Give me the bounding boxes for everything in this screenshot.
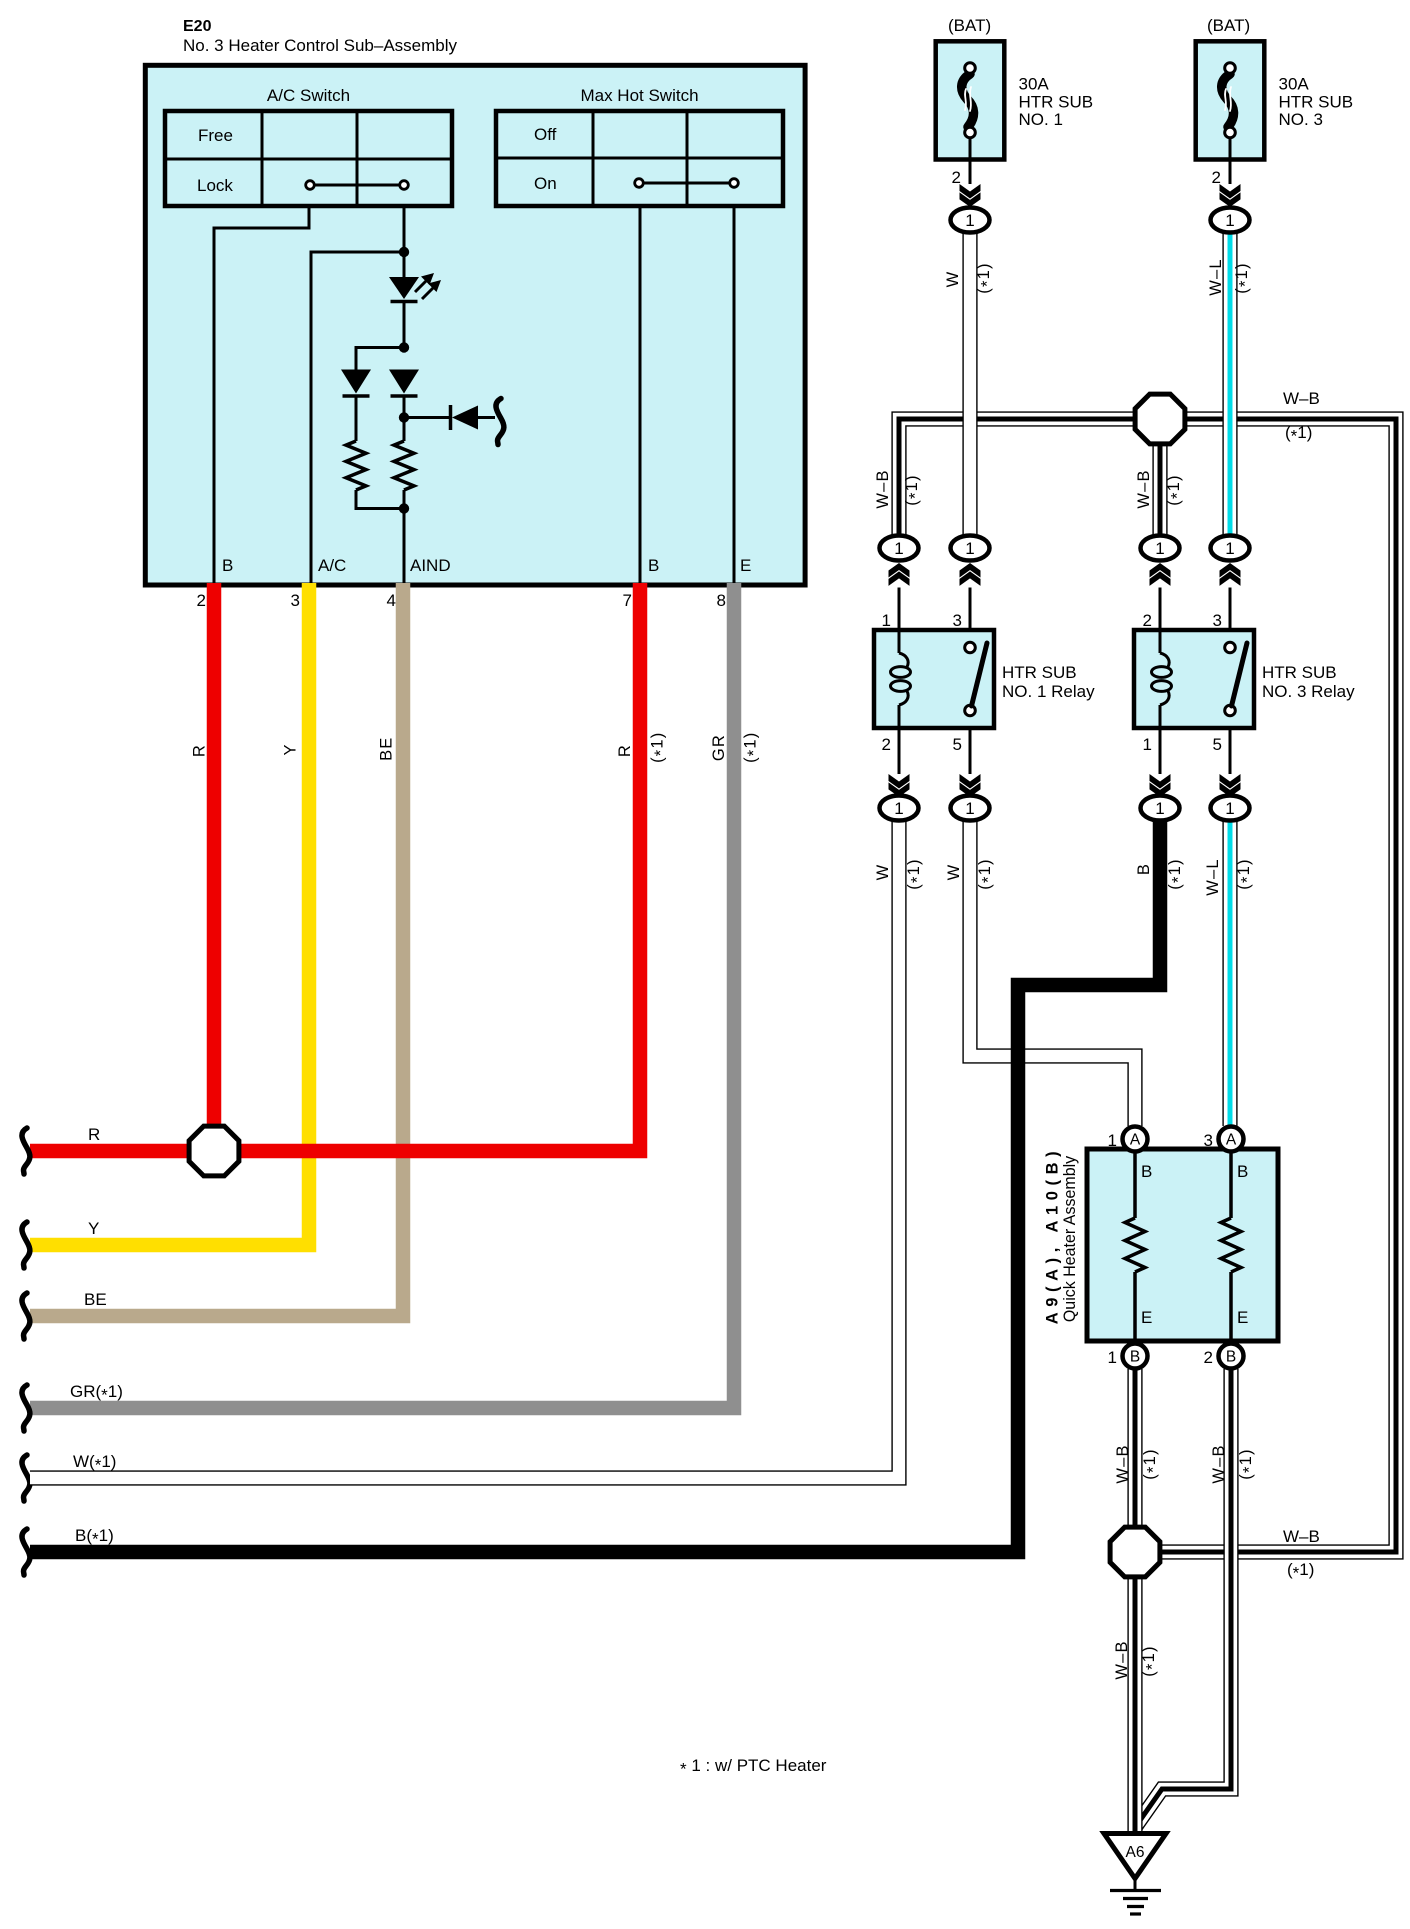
svg-text:2: 2 xyxy=(1204,1348,1213,1367)
off-page squiggle GR xyxy=(22,1385,30,1431)
label W (*1) fuse1 wire xyxy=(944,262,997,293)
wire A/C switch to LED chain xyxy=(403,206,406,252)
wire fuse2 pin 2 link xyxy=(1229,138,1232,184)
svg-text:(*1): (*1) xyxy=(1237,1448,1259,1479)
svg-text:W–B: W–B xyxy=(1210,1444,1228,1483)
svg-text:Lock: Lock xyxy=(197,176,233,195)
svg-text:7: 7 xyxy=(623,591,632,610)
wire relay1 pin1 link xyxy=(898,588,901,631)
label W (*1) relay1 coil wire xyxy=(874,858,927,889)
label E20 / No. 3 Heater Control Sub-Assembly xyxy=(183,18,458,55)
svg-text:A/C: A/C xyxy=(318,556,346,575)
relay HTR SUB NO.3 box xyxy=(1134,630,1254,728)
fuse element NO.3 xyxy=(1222,74,1234,127)
svg-text:2: 2 xyxy=(882,735,891,754)
wire fuse1 pin 2 link xyxy=(969,138,972,184)
Max Hot Switch table xyxy=(496,86,783,206)
wire R (red) off-page to pin 7 xyxy=(30,583,640,1151)
wire W relay1 coil to off-page xyxy=(30,821,899,1478)
heater pin numbers xyxy=(1108,1131,1213,1367)
svg-text:On: On xyxy=(534,174,557,193)
arrow up relay3 pin2 xyxy=(1150,563,1171,578)
diode middle branch xyxy=(389,370,419,394)
svg-text:B: B xyxy=(1237,1162,1248,1181)
svg-text:HTR SUB: HTR SUB xyxy=(1019,93,1094,112)
relay1 switch xyxy=(965,642,976,653)
connector 1 below relay3 coil xyxy=(1141,796,1180,821)
fuse HTR SUB NO.1 box xyxy=(936,41,1005,159)
svg-text:3: 3 xyxy=(953,611,962,630)
wire junction to pin 3 (A/C) xyxy=(311,252,404,585)
wire LED to junction xyxy=(403,301,406,348)
connector 1 above relay3 coil xyxy=(1141,536,1180,561)
arrow down relay1 pin5 xyxy=(960,774,981,789)
svg-text:3: 3 xyxy=(1213,611,1222,630)
svg-text:1: 1 xyxy=(1225,211,1234,230)
A/C Switch table xyxy=(165,86,452,206)
label W (*1) relay1 switch wire xyxy=(945,858,998,889)
relay3 switch xyxy=(1225,642,1236,653)
svg-text:1: 1 xyxy=(1225,539,1234,558)
label HTR SUB NO. 1 Relay xyxy=(1002,663,1095,701)
svg-text:R: R xyxy=(616,744,634,757)
svg-text:A6: A6 xyxy=(1126,1844,1145,1861)
arrow down fuse1 xyxy=(960,184,981,199)
node octagon junction R xyxy=(189,1126,239,1176)
svg-text:(*1): (*1) xyxy=(975,262,997,293)
pin numbers relay1 top xyxy=(882,611,962,630)
svg-text:8: 8 xyxy=(717,591,726,610)
pin numbers relay1 bottom xyxy=(882,735,962,754)
E20 No.3 Heater Control Sub-Assembly box xyxy=(145,65,805,585)
svg-text:Quick Heater Assembly: Quick Heater Assembly xyxy=(1061,1155,1079,1322)
svg-text:1: 1 xyxy=(1225,799,1234,818)
quick heater assembly box xyxy=(1087,1149,1278,1341)
arrow up relay3 pin3 xyxy=(1220,563,1241,578)
wire Max Hot switch to pin 7 (B) xyxy=(639,206,642,585)
ground symbol xyxy=(1110,1878,1161,1914)
svg-text:Max Hot Switch: Max Hot Switch xyxy=(580,86,698,105)
svg-text:1: 1 xyxy=(894,539,903,558)
arrow down relay3 pin1 xyxy=(1150,774,1171,789)
terminal A heater pin1 xyxy=(1123,1127,1148,1152)
svg-text:(*1): (*1) xyxy=(1233,262,1255,293)
svg-text:HTR SUB: HTR SUB xyxy=(1002,663,1077,682)
svg-text:(*1): (*1) xyxy=(1287,1560,1314,1583)
wire W-L fuse2 to relay3 switch xyxy=(1222,233,1237,536)
wire W relay1 switch to heater 1A xyxy=(970,821,1135,1126)
wire left diode to resistor xyxy=(355,396,358,441)
resistor left branch xyxy=(346,441,366,490)
svg-text:(*1): (*1) xyxy=(1166,858,1188,889)
connector 1 below relay1 coil xyxy=(880,796,919,821)
heater element left wire xyxy=(1133,1152,1137,1218)
svg-text:W–L: W–L xyxy=(1207,258,1225,296)
heater element right wire xyxy=(1229,1152,1233,1218)
svg-text:1: 1 xyxy=(1155,799,1164,818)
node octagon junction W-B bottom xyxy=(1110,1527,1160,1577)
svg-text:B: B xyxy=(1141,1162,1152,1181)
wire GR (gray) pin 8 to off-page xyxy=(30,583,734,1408)
svg-text:Y: Y xyxy=(281,743,299,755)
svg-text:1: 1 xyxy=(965,539,974,558)
svg-text:W–B: W–B xyxy=(1135,469,1153,508)
svg-text:W–B: W–B xyxy=(874,469,892,508)
svg-text:NO. 3 Relay: NO. 3 Relay xyxy=(1262,682,1355,701)
svg-text:4: 4 xyxy=(387,591,396,610)
svg-text:1: 1 xyxy=(1155,539,1164,558)
arrow down relay1 pin2 xyxy=(889,774,910,789)
svg-text:1: 1 xyxy=(965,211,974,230)
resistor middle branch xyxy=(394,441,414,490)
arrow up relay1 pin1 xyxy=(889,563,910,578)
svg-text:W–L: W–L xyxy=(1204,858,1222,896)
svg-text:NO. 1 Relay: NO. 1 Relay xyxy=(1002,682,1095,701)
off-page squiggle B xyxy=(22,1529,30,1575)
connector 1 above relay1 coil xyxy=(880,536,919,561)
wire W-B octagon to relay3 coil connector xyxy=(1152,442,1167,536)
off-page squiggle Y xyxy=(22,1222,30,1268)
svg-text:(*1): (*1) xyxy=(649,731,671,762)
svg-text:R: R xyxy=(191,744,209,757)
node junction above LED xyxy=(399,247,409,257)
wire W-B loop (fuse side ground net) xyxy=(899,419,1396,1552)
terminal A heater pin3 xyxy=(1219,1127,1244,1152)
node octagon junction W-B top xyxy=(1135,394,1185,444)
label W-B (*1) bottom horizontal xyxy=(1283,1527,1320,1583)
svg-text:Y: Y xyxy=(88,1219,99,1238)
wire heater left to E xyxy=(1133,1272,1137,1343)
svg-text:A/C Switch: A/C Switch xyxy=(267,86,350,105)
svg-text:NO. 3: NO. 3 xyxy=(1279,110,1323,129)
wire W-B heater 1B to octagon2 xyxy=(1127,1369,1142,1527)
label 30A HTR SUB NO. 1 xyxy=(1019,75,1094,130)
svg-text:E20: E20 xyxy=(183,18,212,35)
relay1 coil xyxy=(898,630,901,653)
ground connector A6 triangle xyxy=(1104,1834,1166,1879)
svg-text:(*1): (*1) xyxy=(742,731,764,762)
svg-text:2: 2 xyxy=(1143,611,1152,630)
relay HTR SUB NO.1 box xyxy=(874,630,994,728)
terminal B heater pin1 bottom xyxy=(1123,1344,1148,1369)
svg-text:5: 5 xyxy=(1213,735,1222,754)
connector 1 below fuse1 xyxy=(951,208,990,233)
LED indicator (AIND) xyxy=(389,252,441,302)
label A9(A) A10(B) Quick Heater Assembly xyxy=(1044,1146,1080,1325)
svg-text:AIND: AIND xyxy=(410,556,451,575)
node junction below LED xyxy=(399,342,409,352)
off-page squiggle W xyxy=(22,1455,30,1501)
wire W-B octagon2 to ground xyxy=(1127,1577,1142,1833)
svg-text:A: A xyxy=(1130,1132,1141,1149)
arrow down relay3 pin5 xyxy=(1220,774,1241,789)
wire middle diode to junction xyxy=(403,396,406,418)
heater internal terminal letters xyxy=(1141,1162,1248,1327)
wire B relay3 coil to off-page xyxy=(30,821,1160,1552)
wire W fuse1 to relay1 switch xyxy=(962,233,977,536)
svg-text:W–B: W–B xyxy=(1113,1640,1131,1679)
svg-text:W: W xyxy=(874,864,892,881)
wire relay3 pin2 link xyxy=(1159,588,1162,631)
relay3 coil xyxy=(1159,630,1162,653)
wire heater right to E xyxy=(1229,1272,1233,1343)
arrow up relay1 pin3 xyxy=(960,563,981,578)
label B (*1) wire xyxy=(1135,858,1188,889)
svg-text:HTR SUB: HTR SUB xyxy=(1262,663,1337,682)
arrow down fuse2 xyxy=(1220,184,1241,199)
svg-text:1: 1 xyxy=(1108,1348,1117,1367)
svg-text:GR: GR xyxy=(710,734,728,761)
svg-text:No. 3 Heater Control Sub–Assem: No. 3 Heater Control Sub–Assembly xyxy=(183,36,458,55)
svg-text:(*1): (*1) xyxy=(1285,423,1312,446)
svg-text:A9(A), A10(B): A9(A), A10(B) xyxy=(1044,1146,1062,1325)
connector 1 below relay3 switch xyxy=(1211,796,1250,821)
svg-text:(*1): (*1) xyxy=(1141,1448,1163,1479)
label W-B (*1) top horizontal xyxy=(1283,389,1320,446)
svg-text:W: W xyxy=(945,864,963,881)
svg-text:W–B: W–B xyxy=(1114,1444,1132,1483)
svg-text:Off: Off xyxy=(534,125,557,144)
wire resistor to bottom junction xyxy=(403,490,406,585)
node bottom junction xyxy=(399,503,409,513)
wire junction to right diode xyxy=(404,416,450,419)
svg-text:HTR SUB: HTR SUB xyxy=(1279,93,1354,112)
connector 1 below fuse2 xyxy=(1211,208,1250,233)
fuse HTR SUB NO.3 box xyxy=(1196,41,1265,159)
wire relay1 pin2 link xyxy=(898,728,901,774)
svg-text:B: B xyxy=(1226,1349,1236,1366)
label W-B (*1) heater 2B wire xyxy=(1210,1444,1259,1483)
svg-text:(*1): (*1) xyxy=(976,858,998,889)
svg-text:(BAT): (BAT) xyxy=(948,16,991,35)
connector 1 above relay1 switch xyxy=(951,536,990,561)
svg-text:BE: BE xyxy=(84,1290,107,1309)
label W-B (*1) middle vertical xyxy=(1135,469,1187,508)
svg-text:2: 2 xyxy=(197,591,206,610)
svg-text:30A: 30A xyxy=(1019,75,1050,94)
svg-text:1: 1 xyxy=(882,611,891,630)
svg-text:BE: BE xyxy=(377,736,395,760)
wire relay1 pin5 link xyxy=(969,728,972,774)
wire middle to resistor xyxy=(403,418,406,442)
connector 1 above relay3 switch xyxy=(1211,536,1250,561)
label W-B (*1) heater 1B wire xyxy=(1114,1444,1163,1483)
svg-text:(*1): (*1) xyxy=(905,858,927,889)
off-page squiggle R xyxy=(22,1128,30,1174)
svg-text:1: 1 xyxy=(1143,735,1152,754)
wire A/C switch to pin 2 (B) xyxy=(214,206,309,585)
A/C switch contact (Lock row) xyxy=(306,181,409,190)
wire BE (beige) pin 4 to off-page xyxy=(30,583,403,1316)
resistor heater element left xyxy=(1125,1218,1145,1272)
pin numbers relay3 bottom xyxy=(1143,735,1222,754)
svg-text:(*1): (*1) xyxy=(1165,474,1187,505)
terminal B heater pin2 bottom xyxy=(1219,1344,1244,1369)
svg-text:B: B xyxy=(222,556,233,575)
stub labels xyxy=(70,1125,123,1549)
fuse element NO.1 xyxy=(962,74,974,127)
svg-text:1: 1 xyxy=(894,799,903,818)
off-page squiggle BE xyxy=(22,1293,30,1339)
wire R (red) pin 2 down xyxy=(207,583,222,1151)
label W-L (*1) relay3 switch wire xyxy=(1204,858,1257,896)
node junction at right-diode tap xyxy=(399,412,409,422)
svg-text:5: 5 xyxy=(953,735,962,754)
resistor heater element right xyxy=(1221,1218,1241,1272)
E20 terminal letters xyxy=(222,556,751,575)
wire W-L relay3 switch to heater 3A xyxy=(1222,821,1237,1126)
svg-text:B: B xyxy=(648,556,659,575)
svg-text:R: R xyxy=(88,1125,100,1144)
wire left resistor to bottom junction xyxy=(356,490,404,509)
svg-text:B: B xyxy=(1130,1349,1140,1366)
label W-B (*1) left vertical xyxy=(874,469,925,508)
wire relay1 pin3 link xyxy=(969,588,972,631)
off-page squiggle at right diode xyxy=(496,399,504,445)
diode left branch xyxy=(341,370,371,394)
Max Hot switch contact (On row) xyxy=(635,179,739,188)
label W-B (*1) below octagon2 xyxy=(1113,1640,1162,1679)
svg-text:A: A xyxy=(1226,1132,1237,1149)
svg-text:(*1): (*1) xyxy=(1235,858,1257,889)
svg-text:E: E xyxy=(740,556,751,575)
label W-L (*1) fuse2 wire xyxy=(1207,258,1255,296)
svg-text:* 1 : w/ PTC Heater: * 1 : w/ PTC Heater xyxy=(680,1756,827,1779)
wire relay3 pin1 link xyxy=(1159,728,1162,774)
svg-text:(BAT): (BAT) xyxy=(1207,16,1250,35)
E20 pin numbers 2 3 4 7 8 xyxy=(197,591,726,610)
svg-text:1: 1 xyxy=(1108,1131,1117,1150)
svg-text:E: E xyxy=(1237,1308,1248,1327)
svg-text:(*1): (*1) xyxy=(1140,1645,1162,1676)
svg-text:B: B xyxy=(1135,863,1153,875)
wire junction to left diode branch xyxy=(356,348,404,370)
connector 1 below relay1 switch xyxy=(951,796,990,821)
svg-text:NO. 1: NO. 1 xyxy=(1019,110,1063,129)
label 30A HTR SUB NO. 3 xyxy=(1279,75,1354,130)
wire Y (yellow) pin 3 to off-page xyxy=(30,583,309,1245)
svg-text:W: W xyxy=(944,271,962,288)
svg-text:3: 3 xyxy=(291,591,300,610)
wire color labels rotated xyxy=(191,731,764,762)
svg-text:3: 3 xyxy=(1204,1131,1213,1150)
svg-text:W–B: W–B xyxy=(1283,389,1320,408)
wire relay3 pin3 link xyxy=(1229,588,1232,631)
wire W-B heater 2B to ground xyxy=(1136,1369,1231,1826)
svg-text:1: 1 xyxy=(965,799,974,818)
wire relay3 pin5 link xyxy=(1229,728,1232,774)
pin numbers relay3 top xyxy=(1143,611,1222,630)
svg-text:30A: 30A xyxy=(1279,75,1310,94)
svg-text:Free: Free xyxy=(198,126,233,145)
svg-text:E: E xyxy=(1141,1308,1152,1327)
svg-text:(*1): (*1) xyxy=(903,474,925,505)
label HTR SUB NO. 3 Relay xyxy=(1262,663,1355,701)
wire Max Hot switch to pin 8 (E) xyxy=(733,206,736,585)
svg-text:W–B: W–B xyxy=(1283,1527,1320,1546)
diode pointing left with off-page curl xyxy=(451,405,496,430)
